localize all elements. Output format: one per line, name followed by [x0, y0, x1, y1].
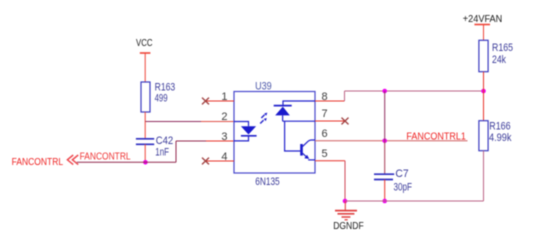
no-connect X pin 7 [342, 118, 349, 125]
wire photodiode anode to pin 7 (inside) [283, 120, 315, 122]
capacitor C7 [374, 168, 412, 193]
svg-text:4.99k: 4.99k [489, 132, 512, 144]
wire top rail [345, 90, 484, 92]
svg-text:3: 3 [221, 131, 227, 143]
junction dot on FANCONTRL rail [143, 160, 148, 165]
junction dot C7/ground rail [382, 199, 387, 204]
resistor R166 [479, 120, 512, 150]
wire node down to C42 [144, 122, 146, 139]
svg-text:FANCONTRL: FANCONTRL [80, 152, 131, 163]
wire photodiode to transistor base [285, 121, 301, 151]
wire C7 bottom to ground rail [384, 180, 386, 202]
svg-text:1: 1 [221, 91, 227, 103]
pin 6 wire FANCONTRL1 [315, 140, 468, 142]
svg-text:R166: R166 [489, 120, 510, 132]
wire R163 bottom to pin2 node [144, 112, 146, 122]
resistor R165 [479, 40, 513, 71]
wire jog up to pin 3 [175, 141, 177, 162]
svg-text:+24VFAN: +24VFAN [463, 14, 503, 25]
svg-text:4: 4 [221, 151, 227, 163]
wire C42 bottom to FANCONTRL rail [144, 144, 146, 162]
wire riser pin8 to top rail [344, 91, 346, 101]
svg-text:R163: R163 [155, 81, 176, 93]
wire pin 5 down to ground rail [344, 161, 346, 201]
wire pin6 node down to C7 [384, 141, 386, 174]
junction dot pin6/C7 branch [382, 139, 387, 144]
svg-text:5: 5 [322, 148, 328, 160]
svg-text:FANCONTRL: FANCONTRL [12, 157, 64, 168]
wire R166 bottom to ground rail [483, 151, 485, 201]
photon arrow (light from LED to photodiode) [260, 113, 267, 124]
wire node to pin 2 of U39 [145, 121, 201, 123]
wire ground rail [345, 200, 484, 202]
wire R165 bottom to rail junction [483, 72, 485, 91]
svg-text:C42: C42 [156, 135, 174, 147]
svg-text:6N135: 6N135 [255, 176, 280, 188]
svg-text:499: 499 [155, 93, 168, 105]
svg-text:VCC: VCC [136, 38, 153, 49]
wire FANCONTRL rail [77, 161, 176, 163]
junction dot rail/C7 branch [382, 89, 387, 94]
svg-text:7: 7 [322, 108, 328, 120]
transistor Q (inside U39) [302, 140, 316, 160]
ground DGNDF [333, 201, 364, 232]
svg-text:FANCONTRL1: FANCONTRL1 [406, 131, 466, 142]
svg-text:24k: 24k [492, 54, 506, 66]
svg-text:30pF: 30pF [394, 182, 413, 194]
svg-text:1nF: 1nF [155, 147, 169, 159]
pin 4 stub [206, 160, 234, 162]
+24VFAN power symbol [463, 14, 503, 41]
no-connect X pin 1 [202, 98, 209, 105]
svg-text:2: 2 [221, 111, 227, 123]
resistor R163 [141, 81, 175, 112]
pin 7 stub [315, 120, 345, 122]
junction dot ground rail [343, 199, 348, 204]
wire rail junction down to R166 [483, 91, 485, 121]
photodiode inside U39 [274, 101, 315, 121]
LED inside U39 [234, 122, 257, 141]
no-connect X pin 4 [202, 158, 209, 165]
off-page connector FANCONTRL [12, 155, 79, 168]
svg-text:U39: U39 [255, 81, 272, 93]
pin 1 stub [206, 100, 234, 102]
junction dot rail/R165 [481, 89, 486, 94]
svg-text:C7: C7 [395, 168, 408, 180]
pin 5 stub [315, 160, 345, 162]
pin 8 stub [315, 100, 345, 102]
wire C7 branch top (rail to pin6 wire) [384, 91, 386, 141]
svg-text:DGNDF: DGNDF [333, 220, 364, 232]
svg-text:6: 6 [322, 128, 328, 140]
capacitor C42 [136, 135, 173, 159]
VCC power symbol [136, 38, 153, 82]
svg-text:R165: R165 [492, 42, 513, 54]
op-amp U39 body (optocoupler 6N135) [234, 81, 315, 189]
wire to pin 3 of U39 [176, 140, 206, 142]
